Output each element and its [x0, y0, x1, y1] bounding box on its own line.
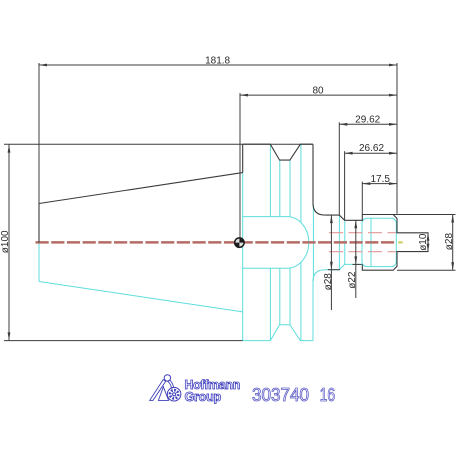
extension line bottom (flange OD) — [4, 340, 243, 342]
extension line top (flange OD) — [4, 143, 313, 145]
extension line right bottom (o28) — [397, 269, 456, 271]
taper cone top edge — [39, 173, 243, 204]
hidden contour: cone lower slope (cyan) — [39, 282, 243, 312]
flange top edge with v-groove — [243, 144, 313, 160]
logo pictogram: figure arm band — [168, 380, 174, 388]
hidden contour: flange bottom edge with v-groove (cyan) — [243, 325, 313, 341]
svg-text:181.8: 181.8 — [205, 55, 230, 66]
dimension diameter 100 — [8, 145, 11, 341]
hidden contour: flange left face (cyan) — [242, 173, 244, 341]
hidden contour: flange right face bottom + fillet (cyan) — [313, 270, 325, 341]
dimension diameter 28 (neck) — [328, 215, 340, 310]
svg-text:29.62: 29.62 — [355, 115, 380, 126]
centerline end segment (yellow) — [398, 241, 402, 243]
svg-text:ø28: ø28 — [323, 273, 334, 291]
extension line x39 — [38, 63, 40, 204]
svg-text:26.62: 26.62 — [359, 143, 384, 154]
dimension 181.8 — [39, 64, 397, 67]
dimension 17.5 — [362, 182, 397, 185]
flange right face and fillet — [313, 144, 325, 215]
hidden contour: clamping end box (cyan rounded) — [362, 218, 396, 266]
extension line x339.3 — [338, 122, 340, 215]
dimension diameter 10 (stud) — [427, 233, 430, 252]
hidden contour: relief groove verticals (cyan) — [338, 215, 340, 270]
hidden contour: clamping end inner line (cyan) — [370, 218, 372, 266]
hidden contour: neck bottom + relief groove bottom (cyan) — [325, 264, 363, 269]
neck, relief groove, end cylinder, stud contour — [325, 215, 428, 271]
logo pictogram: figure head — [164, 375, 170, 381]
svg-text:303740: 303740 — [252, 385, 309, 405]
svg-text:80: 80 — [312, 85, 324, 96]
svg-text:Group: Group — [185, 389, 222, 404]
thread hidden line upper (red dashed) — [329, 232, 396, 234]
logo pictogram: figure triangle leg — [158, 387, 168, 401]
extension line x344.6 — [344, 151, 346, 220]
dimension diameter 22 (groove) — [353, 220, 362, 298]
svg-text:ø100: ø100 — [0, 230, 11, 253]
logo pictogram: gear wheel — [167, 387, 181, 401]
svg-text:17.5: 17.5 — [370, 174, 390, 185]
extension line x362.3 — [361, 182, 363, 215]
centerline main (red dashed) — [36, 241, 397, 244]
extension line x396 — [396, 63, 398, 214]
flange left face — [242, 144, 244, 172]
svg-text:ø28: ø28 — [444, 233, 455, 251]
extension line x240 gauge — [239, 93, 241, 238]
thread hidden line lower (red dashed) — [329, 251, 396, 253]
dimension 26.62 — [345, 152, 397, 155]
dimension 29.62 — [339, 123, 397, 126]
dimension diameter 28 (end) — [451, 215, 454, 271]
hidden contour: cone lower face (cyan) — [38, 242, 40, 281]
dimension 80 — [240, 94, 397, 97]
hidden contour: alternative face line (cyan) — [312, 205, 314, 281]
capsule: pilot contour with spherical end (cyan, white filled) — [243, 217, 309, 269]
logo pictogram: figure body band — [150, 380, 166, 401]
taper cone left face — [38, 204, 40, 243]
svg-text:ø22: ø22 — [347, 271, 358, 289]
svg-text:ø10: ø10 — [418, 233, 429, 251]
extension line right top (o28) — [394, 214, 456, 216]
svg-text:16: 16 — [320, 385, 336, 405]
hidden contour: flange groove verticals (cyan) — [270, 145, 301, 341]
gauge point dot — [235, 238, 245, 248]
